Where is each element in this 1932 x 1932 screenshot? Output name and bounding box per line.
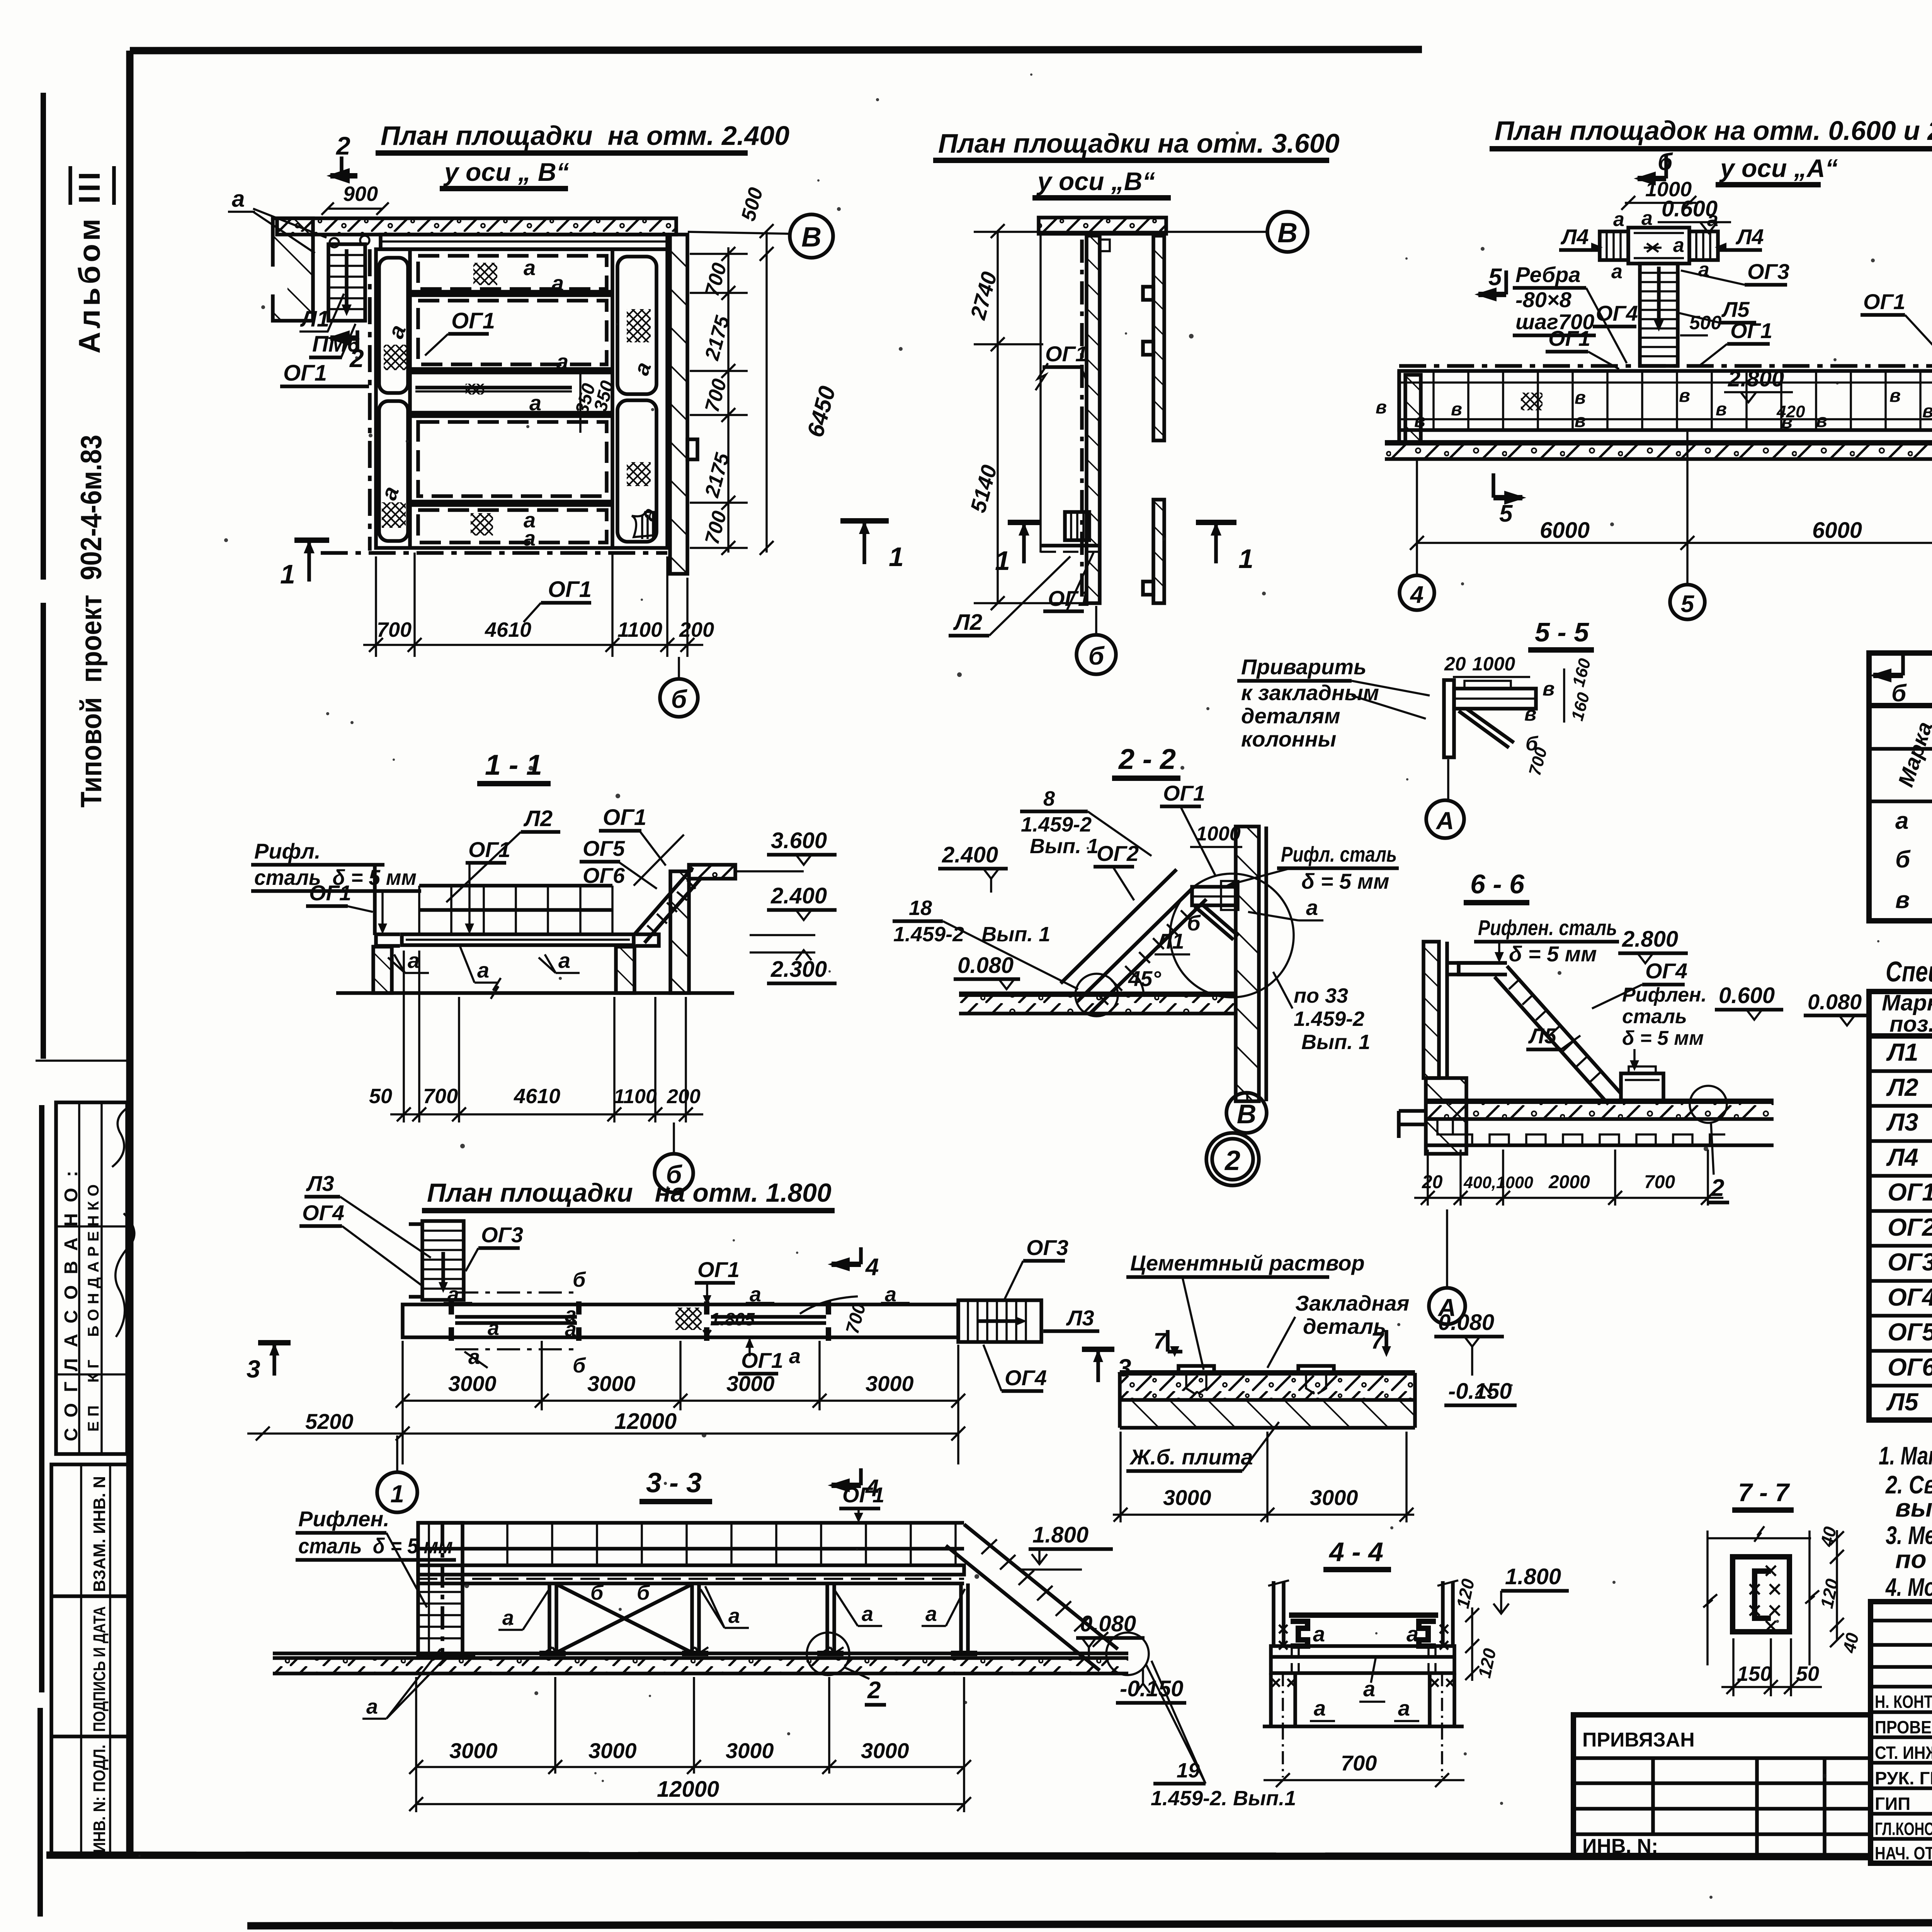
detail circle 2 <box>1690 1086 1727 1123</box>
svg-text:а: а <box>524 526 536 550</box>
left extension line <box>1039 234 1042 553</box>
svg-text:а: а <box>366 1695 378 1718</box>
svg-text:б: б <box>573 1268 586 1291</box>
svg-text:РУК. ГР.: РУК. ГР. <box>1875 1768 1932 1788</box>
svg-text:Л4: Л4 <box>1886 1143 1918 1171</box>
right bar lower <box>1153 500 1164 603</box>
left wall column hatched <box>273 218 313 321</box>
svg-text:3000: 3000 <box>726 1738 774 1763</box>
svg-text:б: б <box>671 685 688 713</box>
svg-text:колонны: колонны <box>1241 727 1336 751</box>
axis b circle bottom <box>678 657 680 679</box>
svg-text:ОГ1: ОГ1 <box>697 1257 740 1282</box>
svg-text:Л3: Л3 <box>306 1171 334 1196</box>
stair L1 (plan) <box>328 244 365 321</box>
svg-text:1: 1 <box>995 546 1010 576</box>
svg-text:1000: 1000 <box>1472 653 1515 675</box>
svg-text:700: 700 <box>1341 1751 1377 1775</box>
svg-text:3000: 3000 <box>726 1371 775 1396</box>
svg-text:400,1000: 400,1000 <box>1463 1173 1533 1192</box>
ground band <box>959 994 1236 1014</box>
svg-text:Типовой проект 902-4-6м.83: Типовой проект 902-4-6м.83 <box>75 435 108 808</box>
svg-text:Л4: Л4 <box>1735 224 1764 249</box>
svg-text:ОГ1: ОГ1 <box>468 837 510 862</box>
svg-text:7 - 7: 7 - 7 <box>1738 1478 1790 1507</box>
main band <box>403 1304 958 1337</box>
staff grid left part <box>1871 1619 1932 1622</box>
svg-text:ОГ1: ОГ1 <box>1548 326 1590 350</box>
svg-text:в: в <box>1716 399 1727 420</box>
svg-text:5: 5 <box>1499 500 1513 527</box>
svg-text:а: а <box>1406 1622 1418 1646</box>
top slab band <box>1039 218 1166 234</box>
svg-text:а: а <box>524 255 536 280</box>
railing <box>418 1521 964 1525</box>
section mark b right <box>1901 651 1905 675</box>
svg-text:Л1: Л1 <box>1886 1038 1918 1066</box>
svg-text:6000: 6000 <box>1812 518 1862 543</box>
svg-text:ОГ2: ОГ2 <box>1888 1213 1932 1241</box>
svg-text:ОГ4: ОГ4 <box>302 1201 344 1225</box>
stair L2 plan <box>1065 512 1089 540</box>
svg-text:50: 50 <box>369 1085 392 1108</box>
top-left stair L3 <box>422 1221 464 1300</box>
railing <box>419 884 612 888</box>
svg-text:ГЛ.КОНСТ.: ГЛ.КОНСТ. <box>1875 1819 1932 1839</box>
svg-text:в: в <box>1922 401 1932 422</box>
ground <box>273 1651 1128 1655</box>
svg-text:к закладным: к закладным <box>1241 680 1379 705</box>
svg-text:3000: 3000 <box>1310 1485 1358 1510</box>
svg-text:1.800: 1.800 <box>1032 1522 1088 1548</box>
svg-text:Ж.б. плита: Ж.б. плита <box>1129 1445 1253 1469</box>
dims right 40 120 40 <box>1836 1530 1838 1640</box>
axis line to B <box>974 231 1267 233</box>
svg-text:ОГ4: ОГ4 <box>1005 1366 1047 1390</box>
svg-text:5: 5 <box>1681 591 1695 617</box>
section mark 2 bottom <box>330 335 357 341</box>
svg-text:а: а <box>565 1318 577 1341</box>
dims below <box>1427 1150 1429 1206</box>
dims <box>1119 1432 1122 1522</box>
section mark 3 right <box>1082 1347 1114 1352</box>
svg-text:Л1: Л1 <box>300 306 329 332</box>
section mark 1 right <box>840 518 889 524</box>
ground line <box>1263 1725 1464 1728</box>
platform bracket <box>1447 961 1507 965</box>
deck <box>418 1565 964 1575</box>
section mark 5 bottom <box>1492 473 1495 498</box>
svg-text:Рифлен.: Рифлен. <box>1622 984 1707 1006</box>
svg-text:в: в <box>1679 386 1690 406</box>
deck line <box>1289 1612 1438 1618</box>
svg-text:а: а <box>1313 1622 1325 1646</box>
svg-text:40: 40 <box>1839 1631 1863 1655</box>
svg-text:-0.150: -0.150 <box>1120 1676 1183 1701</box>
svg-text:ОГ2: ОГ2 <box>1097 841 1139 866</box>
svg-text:1: 1 <box>889 542 904 572</box>
svg-text:а: а <box>1611 260 1622 283</box>
svg-text:5200: 5200 <box>305 1409 354 1434</box>
svg-text:0.600: 0.600 <box>1719 983 1775 1008</box>
svg-text:сталь: сталь <box>1622 1005 1687 1028</box>
svg-text:Приварить: Приварить <box>1241 655 1366 679</box>
svg-text:4: 4 <box>1410 582 1423 608</box>
svg-text:Л3: Л3 <box>1886 1108 1918 1136</box>
ground line <box>336 991 734 995</box>
svg-text:ОГ1: ОГ1 <box>1888 1178 1932 1206</box>
svg-text:2.400: 2.400 <box>770 883 827 908</box>
svg-text:4610: 4610 <box>485 618 531 641</box>
svg-text:6000: 6000 <box>1540 518 1590 543</box>
svg-text:б: б <box>1088 641 1105 670</box>
column <box>1444 680 1454 757</box>
left support column <box>1405 375 1421 443</box>
svg-text:а: а <box>1613 208 1624 231</box>
svg-text:1.459-2: 1.459-2 <box>1294 1007 1364 1031</box>
svg-text:45°: 45° <box>1128 966 1161 991</box>
left wall <box>1423 942 1439 1078</box>
central platform <box>1628 228 1689 264</box>
svg-text:Рифлен.: Рифлен. <box>298 1507 389 1531</box>
svg-text:150: 150 <box>1737 1662 1772 1685</box>
svg-text:ИНВ. N: ПОДЛ.: ИНВ. N: ПОДЛ. <box>90 1745 109 1853</box>
svg-text:700: 700 <box>423 1085 458 1108</box>
120 120 dims right <box>1471 1607 1473 1681</box>
svg-text:ОГ1: ОГ1 <box>1863 289 1905 314</box>
right wall hatched <box>670 235 687 574</box>
svg-text:ПРИВЯЗАН: ПРИВЯЗАН <box>1582 1729 1695 1751</box>
svg-text:3000: 3000 <box>588 1738 637 1763</box>
dims 2740/5140 <box>997 231 999 603</box>
railing posts <box>1274 1581 1453 1646</box>
svg-text:Л5: Л5 <box>1528 1024 1556 1048</box>
svg-text:ОГ1: ОГ1 <box>603 805 646 830</box>
svg-text:Закладная: Закладная <box>1295 1291 1409 1315</box>
svg-text:а: а <box>1306 895 1318 920</box>
beam band <box>1271 1646 1454 1673</box>
stair diagonal down-right <box>1507 966 1621 1094</box>
svg-text:3000: 3000 <box>587 1371 636 1396</box>
svg-text:ГИП: ГИП <box>1875 1794 1910 1814</box>
2 junction circle <box>807 1633 849 1675</box>
bolt circles <box>330 238 339 247</box>
lower pedestal block <box>1426 1078 1466 1154</box>
svg-text:ОГ1: ОГ1 <box>842 1483 884 1507</box>
svg-text:1100: 1100 <box>614 1085 657 1108</box>
svg-text:700: 700 <box>377 618 412 641</box>
svg-text:2.300: 2.300 <box>770 957 827 982</box>
svg-text:в: в <box>1376 397 1387 418</box>
svg-text:3000: 3000 <box>449 1738 498 1763</box>
left margin stamp boxes (СОГЛАСОВАНО) <box>56 1102 134 1454</box>
svg-text:а: а <box>468 1345 480 1369</box>
svg-text:ОГ3: ОГ3 <box>1026 1235 1068 1260</box>
svg-text:ПОДПИСЬ И ДАТА: ПОДПИСЬ И ДАТА <box>90 1606 109 1732</box>
section mark 4 bottom <box>859 1468 863 1485</box>
svg-text:а: а <box>502 1606 514 1629</box>
svg-text:1.459-2 Вып. 1: 1.459-2 Вып. 1 <box>893 923 1050 946</box>
svg-text:в: в <box>1524 703 1536 725</box>
svg-text:2: 2 <box>335 131 350 160</box>
left stair tower <box>418 1523 463 1656</box>
svg-text:Л2: Л2 <box>523 806 553 831</box>
svg-text:8: 8 <box>1043 787 1055 810</box>
svg-text:у оси „А“: у оси „А“ <box>1719 154 1838 182</box>
svg-text:а: а <box>1895 808 1908 834</box>
svg-text:ОГ1: ОГ1 <box>741 1348 783 1372</box>
svg-text:а: а <box>1398 1696 1410 1720</box>
platform beam <box>1454 689 1536 709</box>
base plates <box>444 1653 977 1656</box>
right bar upper <box>1153 236 1164 440</box>
svg-text:А: А <box>1435 807 1454 835</box>
svg-text:высота сварного шва hш = 6: высота сварного шва hш = 6 мм. <box>1895 1493 1932 1522</box>
pedestal at stair foot <box>1621 1073 1663 1101</box>
platform outer <box>368 249 372 551</box>
section mark 1 bottom-left <box>294 537 329 543</box>
svg-text:Ребра: Ребра <box>1515 262 1580 287</box>
svg-text:3000: 3000 <box>866 1371 914 1396</box>
svg-text:ПМ6: ПМ6 <box>312 332 360 357</box>
svg-text:в: в <box>1575 411 1586 431</box>
svg-text:в: в <box>1895 887 1910 913</box>
svg-text:ОГ1: ОГ1 <box>1163 781 1205 805</box>
svg-text:1100: 1100 <box>617 618 662 641</box>
svg-text:ПРОВЕР.: ПРОВЕР. <box>1875 1717 1932 1737</box>
svg-text:а: а <box>789 1345 801 1368</box>
svg-text:δ = 5 мм: δ = 5 мм <box>1301 869 1389 893</box>
axis b circle <box>673 1122 675 1153</box>
svg-text:В: В <box>1277 218 1298 248</box>
svg-text:Л5: Л5 <box>1886 1388 1919 1416</box>
svg-text:Н. КОНТР.: Н. КОНТР. <box>1875 1692 1932 1712</box>
stair band <box>1078 887 1194 1001</box>
svg-text:1. Материал металлоконструкци: 1. Материал металлоконструкций - сталь В… <box>1879 1441 1932 1470</box>
svg-text:по 33: по 33 <box>1294 984 1348 1007</box>
svg-text:1: 1 <box>280 559 295 589</box>
svg-text:а: а <box>1673 234 1684 257</box>
svg-text:б: б <box>1891 680 1907 707</box>
svg-text:а: а <box>408 948 420 973</box>
svg-text:1.800: 1.800 <box>1505 1564 1561 1589</box>
right wall <box>670 871 689 993</box>
left ladder L4 <box>1600 231 1628 260</box>
svg-text:700: 700 <box>1644 1172 1675 1192</box>
svg-text:420: 420 <box>1776 402 1805 421</box>
svg-text:а: а <box>862 1602 873 1626</box>
svg-text:в: в <box>1543 678 1554 700</box>
svg-text:200: 200 <box>667 1085 701 1108</box>
svg-text:План площадок на отм. 0.600 и: План площадок на отм. 0.600 и 2.800 <box>1495 116 1932 146</box>
axis b circle <box>1095 606 1097 634</box>
axis B circle <box>688 232 790 234</box>
svg-text:а: а <box>1641 207 1653 230</box>
svg-text:ОГ1: ОГ1 <box>1045 342 1087 366</box>
svg-text:у оси „ В“: у оси „ В“ <box>443 158 569 186</box>
svg-text:ОГ5: ОГ5 <box>583 836 625 861</box>
svg-text:1 - 1: 1 - 1 <box>485 749 542 781</box>
svg-text:ОГ3: ОГ3 <box>1747 259 1789 284</box>
svg-text:2: 2 <box>867 1677 881 1704</box>
svg-text:3: 3 <box>247 1355 260 1383</box>
svg-text:в: в <box>1889 386 1901 406</box>
svg-text:12000: 12000 <box>657 1777 719 1802</box>
svg-text:Л4: Л4 <box>1560 224 1589 249</box>
svg-text:40: 40 <box>1816 1525 1840 1549</box>
svg-text:Вып. 1: Вып. 1 <box>1301 1031 1370 1054</box>
svg-text:5 - 5: 5 - 5 <box>1535 617 1589 647</box>
svg-text:3000: 3000 <box>1163 1485 1211 1510</box>
detail marker 2 double circle <box>1206 1133 1259 1185</box>
svg-text:ОГ4: ОГ4 <box>1596 301 1638 325</box>
700 dim <box>1264 1779 1464 1781</box>
deck <box>402 934 634 945</box>
body rect <box>1733 1557 1789 1632</box>
detail circles <box>1170 874 1294 997</box>
svg-text:ОГ1: ОГ1 <box>309 881 351 905</box>
svg-text:В: В <box>801 222 821 253</box>
svg-text:5: 5 <box>1488 264 1502 291</box>
svg-text:В: В <box>1237 1099 1257 1129</box>
svg-text:0.080: 0.080 <box>1808 990 1862 1014</box>
wall <box>1236 827 1259 1101</box>
svg-text:18: 18 <box>909 896 932 920</box>
svg-text:δ = 5 мм: δ = 5 мм <box>1622 1027 1704 1049</box>
svg-text:1: 1 <box>1238 544 1253 574</box>
svg-text:НАЧ. ОТД: НАЧ. ОТД <box>1875 1843 1932 1863</box>
wall anchor top <box>1100 240 1110 251</box>
edge channels <box>1291 1621 1308 1646</box>
svg-text:в: в <box>1451 399 1462 420</box>
svg-text:Л2: Л2 <box>1886 1073 1918 1101</box>
dim frame <box>1708 1537 1811 1539</box>
svg-text:План площадки на отм. 2.400: План площадки на отм. 2.400 <box>381 121 789 151</box>
pedestals <box>373 947 392 993</box>
svg-text:0.080: 0.080 <box>957 953 1014 978</box>
svg-text:ИНВ. N:: ИНВ. N: <box>1582 1835 1658 1857</box>
left strip cells <box>379 258 408 393</box>
svg-text:Рифл.: Рифл. <box>254 839 321 863</box>
svg-text:а: а <box>552 271 564 295</box>
svg-text:ОГ3: ОГ3 <box>481 1223 523 1247</box>
svg-text:б: б <box>590 1581 604 1604</box>
svg-text:в: в <box>1575 388 1586 408</box>
ground band <box>1385 443 1932 459</box>
axis V circle <box>1246 1092 1248 1102</box>
svg-text:4. Монтаж лестниц и огражде: 4. Монтаж лестниц и ограждений вести по … <box>1885 1573 1932 1601</box>
svg-text:а: а <box>488 1316 499 1340</box>
svg-text:2.800: 2.800 <box>1728 366 1784 391</box>
svg-text:ОГ5: ОГ5 <box>1888 1318 1932 1346</box>
svg-text:3.600: 3.600 <box>771 828 827 853</box>
svg-text:12000: 12000 <box>614 1409 677 1434</box>
svg-text:50: 50 <box>1796 1662 1819 1685</box>
svg-text:а: а <box>1707 208 1718 231</box>
svg-text:Спецификация элементов к схем: Спецификация элементов к схеме расположе… <box>1886 956 1932 988</box>
svg-text:ОГ6: ОГ6 <box>1888 1353 1932 1381</box>
svg-text:ВЗАМ. ИНВ. N: ВЗАМ. ИНВ. N <box>90 1476 109 1592</box>
section mark 3 left <box>258 1340 291 1345</box>
svg-text:0.080: 0.080 <box>1080 1611 1136 1636</box>
svg-text:Л3: Л3 <box>1066 1306 1094 1330</box>
svg-text:а: а <box>1363 1677 1375 1701</box>
notes <box>1879 1441 1932 1601</box>
dims below plan <box>375 556 377 657</box>
svg-text:2.400: 2.400 <box>942 842 998 867</box>
svg-text:1: 1 <box>390 1480 404 1508</box>
ground with ribbed deck <box>1426 1099 1774 1104</box>
svg-text:20: 20 <box>1422 1172 1443 1192</box>
dims <box>415 1677 417 1812</box>
svg-text:Л2: Л2 <box>953 610 982 635</box>
svg-text:4610: 4610 <box>514 1085 560 1108</box>
svg-text:б: б <box>637 1581 650 1604</box>
edge beam band <box>381 235 667 249</box>
svg-text:ОГ1: ОГ1 <box>283 361 327 386</box>
svg-text:ОГ1: ОГ1 <box>1730 318 1772 343</box>
svg-text:у оси „В“: у оси „В“ <box>1036 167 1155 196</box>
left margin vertical captions <box>70 166 114 808</box>
svg-text:δ = 5 мм: δ = 5 мм <box>1509 942 1597 966</box>
dim 6000 6000 <box>1416 459 1418 576</box>
svg-text:6 - 6: 6 - 6 <box>1470 869 1525 899</box>
svg-text:а: а <box>728 1604 740 1628</box>
channel inside <box>1755 1571 1771 1618</box>
svg-text:б: б <box>573 1354 586 1377</box>
svg-text:ОГ1: ОГ1 <box>548 577 592 602</box>
svg-text:ОГ4: ОГ4 <box>1888 1283 1932 1311</box>
svg-text:3000: 3000 <box>861 1738 909 1763</box>
svg-text:б: б <box>1895 846 1911 873</box>
columns <box>549 1583 968 1653</box>
svg-text:в: в <box>1816 411 1827 431</box>
section mark 1 right <box>1196 520 1236 525</box>
svg-text:поз.: поз. <box>1889 1012 1932 1037</box>
svg-text:2.800: 2.800 <box>1622 927 1678 952</box>
svg-text:по ГОСТ 695-77.: по ГОСТ 695-77. <box>1895 1545 1932 1573</box>
svg-text:СТ. ИНЖ.: СТ. ИНЖ. <box>1875 1743 1932 1763</box>
right strip cells <box>617 257 656 394</box>
svg-text:Рифл. сталь: Рифл. сталь <box>1281 842 1397 866</box>
svg-text:Цементный раствор: Цементный раствор <box>1130 1251 1365 1275</box>
rail dashdot + band <box>1399 364 1932 368</box>
svg-text:ОГ1: ОГ1 <box>451 308 495 333</box>
dim rows <box>401 1341 404 1464</box>
bottom rail dashdot <box>321 551 667 555</box>
section mark 4 top <box>859 1247 863 1264</box>
brace <box>1459 711 1509 748</box>
svg-text:а: а <box>232 186 245 212</box>
stair diagonal <box>634 867 693 934</box>
axis A circle <box>1447 759 1449 799</box>
svg-text:а: а <box>1314 1696 1326 1720</box>
svg-text:900: 900 <box>343 182 378 206</box>
svg-text:ОГ3: ОГ3 <box>1888 1248 1932 1276</box>
slab <box>1120 1370 1415 1376</box>
dims below <box>403 951 405 1122</box>
left margin stamp boxes (ИНВ/ПОДПИСЬ) <box>51 1464 129 1855</box>
svg-text:а: а <box>477 958 489 982</box>
svg-text:3000: 3000 <box>448 1371 497 1396</box>
grid circle 1 <box>396 1435 398 1471</box>
right ladder L4 <box>1689 231 1718 260</box>
svg-text:-80×8: -80×8 <box>1515 287 1572 312</box>
wall hatched <box>1087 236 1100 603</box>
middle rows <box>410 290 612 294</box>
dims bottom 150 50 <box>1732 1638 1735 1696</box>
right stair <box>964 1524 1118 1649</box>
